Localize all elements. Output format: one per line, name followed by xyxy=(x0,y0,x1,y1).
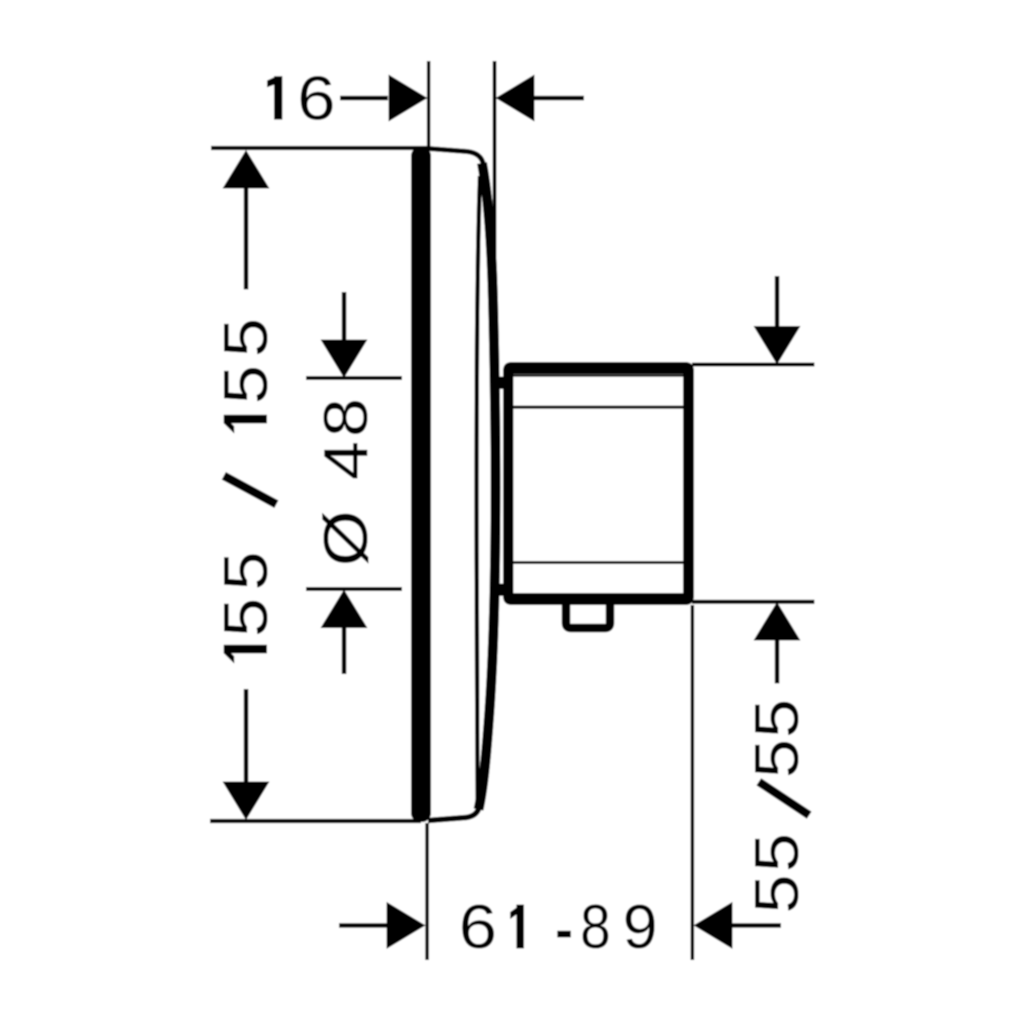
plate outer bulge curve xyxy=(479,163,496,810)
label 55 / 55 slash xyxy=(759,782,809,815)
ref line 55 top right xyxy=(692,363,815,367)
svg-text:9: 9 xyxy=(623,892,658,962)
valve body box border xyxy=(503,362,694,605)
svg-text:5: 5 xyxy=(742,699,812,738)
dim 61-89 left-pointing arrowhead xyxy=(694,902,733,949)
label 155 / 155 rotated: upper 155 xyxy=(224,415,267,424)
dim 61-89 right tail xyxy=(733,923,782,928)
svg-text:8: 8 xyxy=(311,398,381,437)
escutcheon plate front face bar xyxy=(411,147,431,822)
dim 155 bottom tail xyxy=(244,689,249,782)
extension line 16 right wall plane xyxy=(493,61,497,311)
svg-text:Ø: Ø xyxy=(311,510,381,566)
svg-text:8: 8 xyxy=(580,893,611,962)
label 155 / 155 slash xyxy=(224,476,277,504)
dim 16 left tail xyxy=(340,96,388,101)
box inner line lower xyxy=(514,561,684,564)
dim 155 bottom arrowhead xyxy=(223,782,270,821)
dim 61-89 right-pointing arrowhead xyxy=(387,902,426,949)
extension line 16 left xyxy=(427,61,431,150)
dim d48 up arrowhead xyxy=(321,590,368,629)
ref line 155 top xyxy=(211,146,428,150)
dim 16 right tail xyxy=(535,96,585,101)
svg-text:6: 6 xyxy=(297,63,335,132)
svg-text:5: 5 xyxy=(211,551,281,590)
svg-text:5: 5 xyxy=(742,833,812,872)
dim d48 top tail xyxy=(342,292,347,341)
ref line 155 bottom xyxy=(210,819,421,823)
dim 155 top tail xyxy=(244,189,249,290)
dim d48 down arrowhead xyxy=(321,340,368,379)
box inner thin line top xyxy=(514,374,684,377)
svg-text:5: 5 xyxy=(742,739,812,778)
dim 55 top tail xyxy=(775,276,780,326)
dim 16 left arrowhead xyxy=(389,75,428,122)
extension line 61-89 right xyxy=(691,605,695,960)
cartridge nub top xyxy=(496,377,513,390)
ref line d48 top xyxy=(306,376,402,380)
dim d48 bottom tail xyxy=(342,628,347,674)
dim 155 top arrowhead xyxy=(223,150,270,189)
box inner line upper xyxy=(514,406,684,409)
plate bottom edge xyxy=(428,806,480,821)
ref line 55 bottom right xyxy=(692,600,815,604)
svg-text:5: 5 xyxy=(211,598,281,637)
dim 16 right arrowhead xyxy=(496,75,535,122)
label 61-89 digit 1 xyxy=(516,905,524,949)
bottom notch tab xyxy=(566,604,610,628)
plate inner back line xyxy=(477,176,480,800)
dim 55 bottom tail xyxy=(775,641,780,684)
cartridge nub bottom xyxy=(496,584,513,597)
svg-text:5: 5 xyxy=(742,874,812,913)
dim 61-89 left tail xyxy=(339,923,390,928)
label 155 / 155 rotated: lower 155 xyxy=(224,645,267,654)
svg-text:5: 5 xyxy=(211,318,281,357)
dim 55 down arrowhead xyxy=(754,326,801,365)
extension line 61-89 left xyxy=(425,823,429,960)
svg-text:6: 6 xyxy=(459,892,497,961)
svg-text:4: 4 xyxy=(311,441,381,480)
svg-text:5: 5 xyxy=(211,365,281,404)
label 16 digit 1 xyxy=(274,76,282,119)
dim 55 up arrowhead xyxy=(754,602,801,641)
plate top edge xyxy=(428,149,484,166)
ref line d48 bottom xyxy=(306,587,402,591)
label 61-89 dash xyxy=(557,931,571,938)
